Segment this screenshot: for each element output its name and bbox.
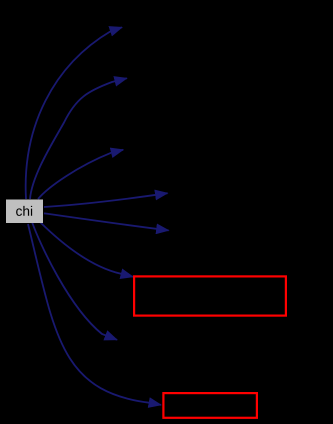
wire edge3 chi->node3	[38, 150, 123, 199]
node box1 (red highlighted)	[134, 276, 286, 315]
wire edge2 chi->node2	[30, 78, 127, 199]
wire edge6 chi->node6	[40, 222, 133, 277]
wire edge1 chi->node1	[26, 27, 122, 199]
wire edge4 chi->node4	[44, 193, 168, 207]
wire edge8 chi->node8	[28, 224, 161, 405]
wire edge7 chi->node7	[32, 222, 117, 340]
node box2 (red highlighted)	[163, 393, 257, 418]
node chi	[6, 200, 43, 224]
wire edge5 chi->node5	[44, 213, 169, 230]
